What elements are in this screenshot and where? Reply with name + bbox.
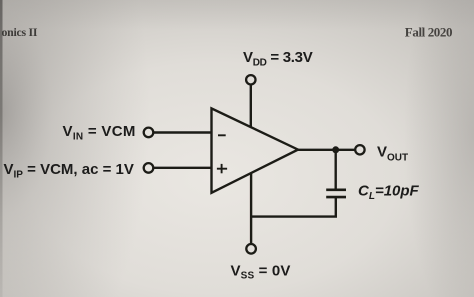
header term text bbox=[405, 24, 452, 39]
op-amp inverting input minus sign bbox=[218, 134, 226, 136]
terminal VIN bbox=[144, 128, 154, 138]
wire VSS rail from op-amp bottom bbox=[250, 173, 252, 244]
capacitor CL bottom lead and return wire to VSS rail bbox=[251, 197, 336, 217]
svg-text:VSS = 0V: VSS = 0V bbox=[231, 262, 291, 281]
terminal VOUT bbox=[355, 145, 364, 154]
capacitor CL top lead wire bbox=[335, 150, 337, 189]
wire VIP to non-inverting input bbox=[153, 167, 211, 169]
op-amp U1 triangle bbox=[212, 108, 299, 192]
svg-text:CL=10pF: CL=10pF bbox=[358, 183, 420, 202]
op-amp non-inverting input plus sign bbox=[217, 164, 227, 173]
terminal VDD bbox=[246, 75, 255, 84]
junction node at output bbox=[332, 146, 339, 153]
wire VDD supply to op-amp top bbox=[250, 84, 252, 127]
svg-text:onics II: onics II bbox=[2, 25, 38, 39]
wire op-amp output to VOUT bbox=[297, 149, 355, 151]
wire VIN to inverting input bbox=[153, 131, 211, 133]
svg-text:Fall 2020: Fall 2020 bbox=[405, 24, 452, 39]
svg-text:VIP = VCM, ac = 1V: VIP = VCM, ac = 1V bbox=[4, 161, 134, 180]
terminal VSS bbox=[246, 244, 256, 254]
capacitor CL plates bbox=[326, 190, 346, 197]
terminal VIP bbox=[144, 163, 154, 173]
header course title text bbox=[2, 25, 38, 39]
